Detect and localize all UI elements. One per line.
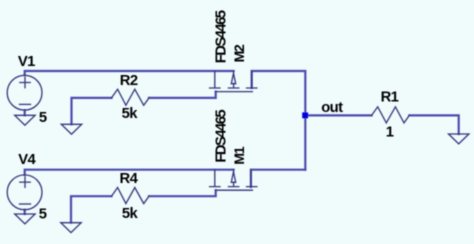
wire R2 right to M2 gate xyxy=(149,92,216,98)
svg-text:5: 5 xyxy=(39,110,47,126)
svg-text:R4: R4 xyxy=(120,171,139,187)
voltage source V4 xyxy=(7,175,42,210)
svg-text:V1: V1 xyxy=(18,54,35,70)
wire V1 bottom lead xyxy=(24,110,26,115)
ground below V4 xyxy=(15,214,35,224)
ground below V1 xyxy=(15,115,35,125)
wire V1 top to M2 source/body xyxy=(25,71,234,75)
resistor R1 xyxy=(372,107,410,123)
svg-text:5k: 5k xyxy=(122,106,139,122)
node out junction xyxy=(302,112,308,118)
svg-text:FDS4465: FDS4465 xyxy=(214,10,230,63)
ground below R2 left xyxy=(61,124,81,134)
wire R4 left to ground xyxy=(71,196,112,223)
svg-text:5: 5 xyxy=(39,207,47,223)
svg-text:R2: R2 xyxy=(120,73,138,89)
wire V4 top to M1 source/body xyxy=(25,170,234,175)
wire out to R1 xyxy=(305,114,371,116)
voltage source V1 xyxy=(7,75,42,110)
svg-text:M1: M1 xyxy=(231,146,247,164)
transistor M2 xyxy=(210,71,257,92)
svg-text:1: 1 xyxy=(386,124,394,140)
wire R1 right to ground xyxy=(409,115,458,134)
svg-text:5k: 5k xyxy=(122,206,139,222)
svg-text:M2: M2 xyxy=(231,44,247,62)
transistor M1 xyxy=(210,170,257,191)
svg-text:R1: R1 xyxy=(381,89,399,105)
wire M2 drain to out vertical xyxy=(252,71,306,170)
resistor R4 xyxy=(112,188,150,204)
wire V4 bottom lead xyxy=(24,210,26,214)
ground below R4 left xyxy=(61,223,81,233)
svg-text:FDS4465: FDS4465 xyxy=(214,110,230,163)
wire R4 right to M1 gate xyxy=(149,190,216,196)
wire R2 left to ground xyxy=(72,98,112,124)
resistor R2 xyxy=(112,89,150,105)
svg-text:V4: V4 xyxy=(18,152,36,168)
svg-text:out: out xyxy=(321,100,343,116)
wire M1 drain to out vertical xyxy=(251,170,305,187)
ground right of R1 xyxy=(449,134,469,144)
